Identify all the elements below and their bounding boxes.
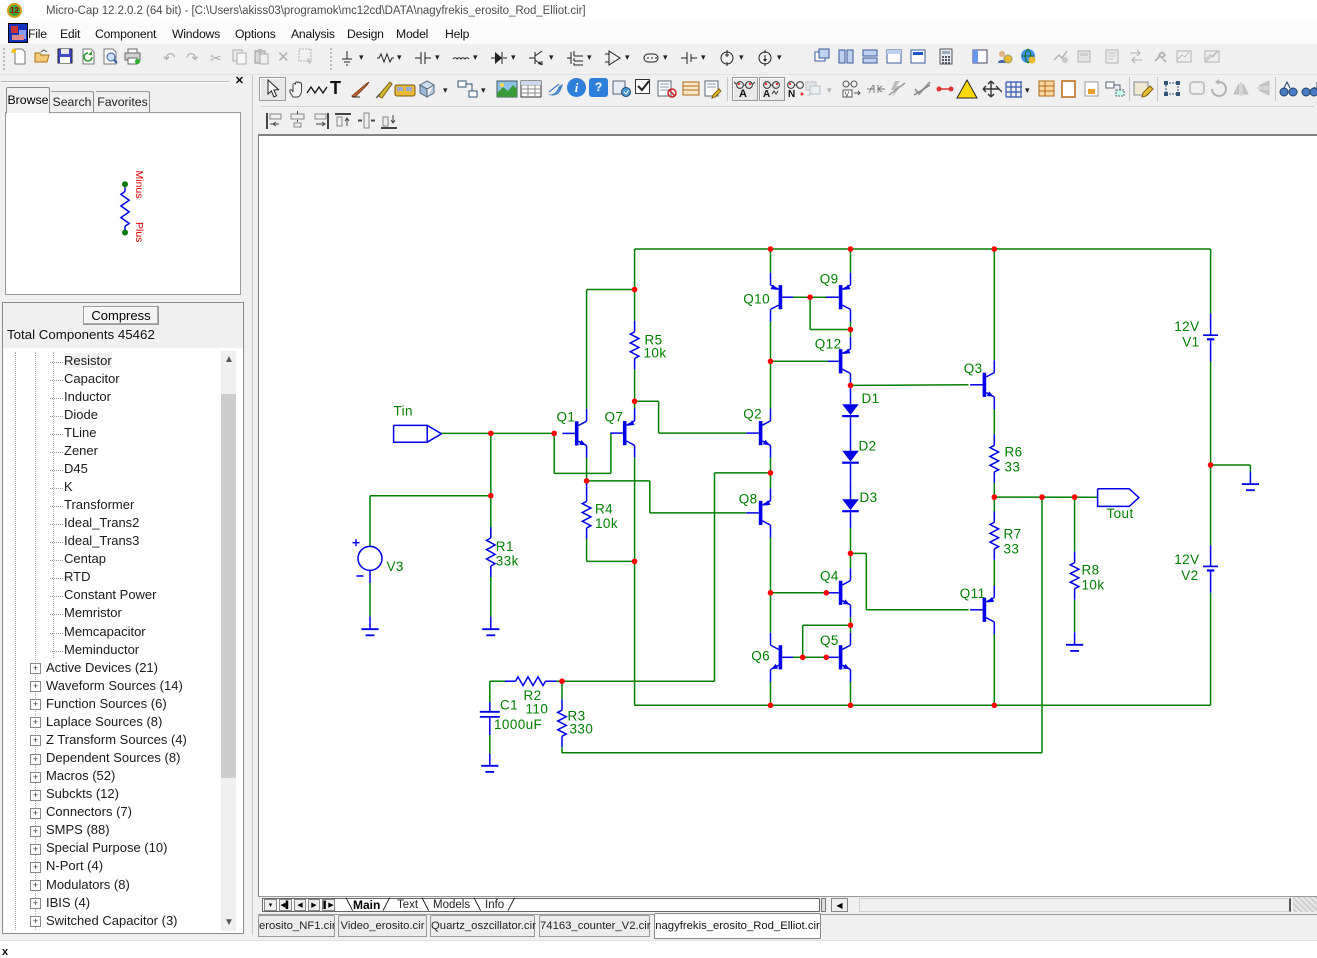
svg-text:R4: R4: [595, 502, 613, 517]
status bar: [0, 940, 1317, 958]
svg-text:Q7: Q7: [604, 410, 623, 425]
resistor R6: [993, 434, 995, 445]
wire Q1 collector: [586, 290, 588, 409]
resistor R4: [586, 481, 588, 502]
svg-text:Q1: Q1: [556, 410, 575, 425]
wire Q4 emitter: [850, 617, 852, 625]
wire Q1-Q7 base tie: [553, 433, 555, 473]
svg-text:33k: 33k: [496, 554, 519, 569]
node junction R5 / Q7 emitter / Q2 base wire: [632, 399, 638, 405]
wire Q2 base from R5 node: [635, 400, 659, 402]
wire R8 to ground: [1074, 600, 1076, 633]
svg-text:V2: V2: [1181, 568, 1198, 583]
wire R3 bottom to feedback: [561, 747, 563, 753]
svg-text:A: A: [763, 89, 770, 99]
node junction bottom rail Q6 emitter: [768, 703, 774, 709]
wire R5 top from rail: [634, 249, 636, 321]
battery V2: [1210, 545, 1212, 566]
node junction Q5 Q6 base tie: [800, 655, 806, 661]
wire Q10 emitter to rail: [770, 249, 772, 273]
svg-text:V: V: [845, 92, 850, 99]
svg-text:12V: 12V: [1174, 319, 1199, 334]
svg-text:D3: D3: [860, 490, 878, 505]
node junction output / feedback: [1039, 494, 1045, 500]
wire D3 to Q4 collector node: [850, 528, 852, 568]
node junction Q4 emitter / Q5 collector / bias tie: [848, 622, 854, 628]
node junction D3 / Q4 collector / Q11 base wire: [848, 551, 854, 557]
ground C1: [489, 753, 491, 765]
row3 alignment icons: [264, 111, 286, 131]
wire feedback bottom: [562, 752, 1043, 754]
title bar: [0, 0, 1317, 22]
node junction ground tap: [1208, 462, 1214, 468]
transistor Q7: [623, 421, 627, 445]
svg-text:N: N: [788, 89, 795, 99]
svg-text:Q8: Q8: [739, 492, 758, 507]
tree: [2, 302, 244, 934]
transistor Q5: [839, 645, 843, 669]
wire V1 minus to V2 plus: [1210, 362, 1212, 546]
wire Q6 emitter to bottom rail: [770, 682, 772, 705]
wire Q8 base from Q1 emitter: [587, 480, 650, 482]
resistor R7: [993, 497, 995, 522]
svg-text:R6: R6: [1005, 445, 1023, 460]
wire Q9 Q10 base tie down: [809, 297, 811, 329]
svg-text:V3: V3: [387, 559, 404, 574]
wire V3 branch: [370, 495, 491, 497]
svg-text:R1: R1: [496, 539, 514, 554]
wire bottom rail: [634, 704, 1210, 706]
wire Q7 collector down to bottom rail: [634, 458, 636, 706]
svg-text:110: 110: [526, 702, 549, 717]
wire Q6 base tie to Q4 emitter: [793, 656, 803, 658]
wire input node down to R1 node: [490, 433, 492, 495]
file tab row: [258, 912, 1317, 940]
ground right supply: [1249, 472, 1251, 484]
wire Q11 base: [851, 552, 867, 554]
wire Q5 base: [803, 656, 827, 658]
node junction Q12 collector / D1 / Q3 base: [848, 383, 854, 389]
node junction output / R6 R7: [992, 494, 998, 500]
wire Q3 collector to rail: [993, 249, 995, 360]
svg-text:Q9: Q9: [820, 272, 839, 287]
wire top supply rail: [635, 248, 1211, 250]
svg-text:Q6: Q6: [751, 649, 770, 664]
grip bar: [1, 81, 229, 83]
tabs: [6, 87, 50, 113]
vertical divider between panel zone and right zone: [252, 75, 253, 935]
output pennant Tout: [1098, 489, 1139, 507]
svg-text:D2: D2: [859, 439, 877, 454]
svg-text:1000uF: 1000uF: [494, 717, 542, 732]
tree scrollbar: [221, 351, 236, 931]
wire node to R2 node (vertical drop): [715, 472, 771, 474]
svg-text:Tin: Tin: [394, 404, 413, 419]
transistor Q3: [983, 373, 987, 397]
ground V3: [369, 617, 371, 629]
transistor Q6: [779, 645, 783, 669]
toolbar row 1: [0, 44, 1317, 75]
wire R6 bottom to output node: [993, 483, 995, 497]
node junction output / R8: [1072, 494, 1078, 500]
capacitor C1: [489, 681, 491, 702]
node junction base tie Q9 Q10: [807, 294, 813, 300]
wire Q10 base to Q9 base: [793, 296, 828, 298]
wire V2 minus down to bottom rail: [1210, 593, 1212, 706]
wire Tin to Q1 base: [441, 432, 443, 434]
wire feedback vertical: [1041, 497, 1043, 753]
compress: [83, 306, 159, 325]
node junction R4 bottom / Q7 collector: [632, 559, 638, 565]
file icons: [11, 48, 28, 65]
wire Q2 collector up to Q12 base node: [770, 361, 772, 408]
transistor Q12: [839, 349, 843, 373]
wire Q5 emitter to bottom rail: [850, 682, 852, 705]
node junction Tin / R1 branch: [488, 431, 494, 437]
wire Q8 emitter: [770, 473, 772, 488]
transistor Q11: [983, 598, 987, 622]
edit icons (grayed): [163, 49, 180, 66]
node junction top rail / Q10 emitter: [768, 246, 774, 252]
svg-text:Q12: Q12: [815, 337, 842, 352]
diode D2: [850, 433, 852, 450]
diode D3: [850, 481, 852, 499]
tree vertical guides: [15, 352, 16, 930]
wire Q4 base: [771, 592, 827, 594]
node junction Q2 emitter / Q8 emitter / output drive: [768, 470, 774, 476]
wire ground tap: [1211, 464, 1251, 466]
node junction bottom rail Q11 collector: [992, 703, 998, 709]
transistor Q1: [575, 421, 579, 445]
resistor R5: [630, 332, 639, 359]
svg-text:10k: 10k: [1082, 578, 1105, 593]
resistor R8: [1074, 497, 1076, 552]
node junction R2 / R3 / feedback to Q2 emitter: [559, 678, 565, 684]
wire Q3 base: [851, 384, 969, 387]
svg-text:10k: 10k: [644, 346, 667, 361]
transistor Q8: [759, 501, 763, 525]
svg-text:Q11: Q11: [960, 586, 986, 601]
svg-text:33: 33: [1004, 542, 1020, 557]
node junction Q1 base / Q7 base tie: [551, 431, 557, 437]
svg-text:V1: V1: [1182, 335, 1199, 350]
preview resistor component: [122, 181, 128, 187]
wire Q5 collector: [850, 625, 852, 633]
svg-text:Tout: Tout: [1107, 506, 1134, 521]
wire output row: [994, 496, 1097, 498]
svg-text:R8: R8: [1082, 563, 1100, 578]
row3 separator: [261, 106, 1314, 107]
resistor R2: [490, 680, 505, 682]
wire R1 to ground: [490, 577, 492, 617]
node junction Q4 base pin: [824, 590, 830, 596]
node junction R1 / V3 / input drop: [488, 493, 494, 499]
svg-text:A: A: [739, 88, 747, 99]
diode D1: [850, 385, 852, 404]
node junction top rail / Q3 collector: [992, 246, 998, 252]
transistor Q4: [839, 581, 843, 605]
svg-text:Plus: Plus: [133, 222, 145, 242]
transistor Q2: [759, 421, 763, 445]
svg-text:D1: D1: [862, 391, 880, 406]
wire Q3 emitter to R6: [993, 409, 995, 434]
battery V1: [1210, 313, 1212, 335]
node junction Q1 collector / R5: [632, 287, 638, 293]
svg-text:33: 33: [1005, 460, 1021, 475]
transistor Q10: [779, 285, 783, 309]
wire Q2 emitter to node: [770, 458, 772, 473]
wire Q12 base from node: [771, 360, 829, 362]
svg-text:Q3: Q3: [964, 361, 983, 376]
svg-text:Q4: Q4: [820, 569, 839, 584]
svg-text:330: 330: [570, 722, 594, 737]
svg-text:Q10: Q10: [743, 291, 770, 306]
input pennant Tin: [394, 425, 442, 442]
node junction top rail / Q9 emitter: [848, 246, 854, 252]
node junction bottom rail Q5 emitter: [848, 703, 854, 709]
wire Q8 collector down: [770, 538, 772, 633]
wire C1 to ground: [489, 735, 491, 753]
node junction Q5 base pin: [824, 655, 830, 661]
resistor R1: [490, 496, 492, 538]
svg-text:C1: C1: [500, 698, 518, 713]
wire Q11 collector to bottom rail: [993, 634, 995, 705]
resistor R3: [561, 681, 563, 699]
row2: [259, 77, 286, 101]
node junction Q9 collector / Q12 emitter: [848, 327, 854, 333]
wire R4 bottom to Q7 collector line: [586, 539, 588, 562]
ground R1: [490, 617, 492, 629]
wire Q12 collector to D1 node: [850, 384, 852, 387]
wire V1 branch right side: [1210, 249, 1212, 313]
svg-text:Minus: Minus: [133, 171, 145, 199]
glasses group: [732, 77, 758, 101]
wire Q9 emitter to rail: [850, 249, 852, 273]
window icons: [814, 48, 831, 65]
preview box: [5, 112, 241, 295]
svg-text:R7: R7: [1004, 527, 1022, 542]
wire Q9 collector: [850, 322, 852, 337]
svg-text:12V: 12V: [1174, 552, 1199, 567]
svg-text:Q5: Q5: [820, 633, 839, 648]
menu bar: [0, 22, 1317, 44]
node junction Q10 collector / Q12 base / Q2 collector: [768, 359, 774, 365]
svg-text:Q2: Q2: [743, 407, 762, 422]
wire Q11 emitter from R7: [993, 560, 995, 585]
ground R8: [1074, 632, 1076, 644]
wire R5 bottom to Q7 emitter node: [634, 369, 636, 401]
transistor Q9: [839, 285, 843, 309]
node junction Q1 emitter / R4 / Q8 base wire: [584, 478, 590, 484]
wire V3 to ground: [369, 570, 371, 583]
wire Q1 emitter to R4: [586, 458, 588, 481]
wire Q7 emitter: [634, 401, 636, 408]
node junction Q8 collector / Q4 base / Q6 collector: [768, 590, 774, 596]
source V3: [369, 496, 371, 547]
wire Q10 collector down to Q12 base node: [770, 322, 772, 362]
sheet tab row: [258, 896, 1317, 912]
svg-text:10k: 10k: [595, 516, 618, 531]
